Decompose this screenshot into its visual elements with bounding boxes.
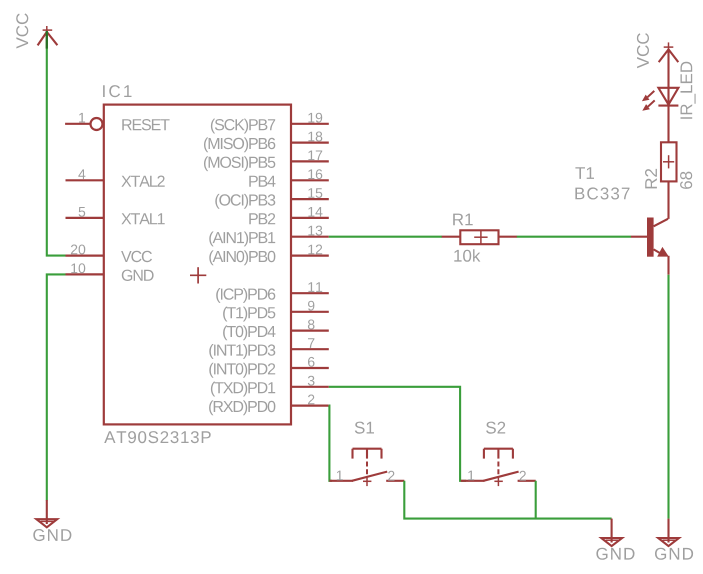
IC1 pin 19 (SCK)PB7	[291, 123, 329, 125]
IC1 pin 9 (T1)PD5	[291, 311, 329, 313]
pin name (INT0)PD2	[209, 363, 275, 378]
LED emission arrows	[642, 91, 655, 111]
net label IR_LED	[681, 62, 696, 119]
resistor R2	[661, 142, 677, 181]
pin 4 XTAL2	[66, 179, 104, 181]
wire pin2 RXD to S1	[329, 406, 332, 481]
ground symbol left	[36, 500, 57, 527]
right pin numbers	[308, 113, 323, 405]
switch S2	[461, 449, 536, 486]
label R2	[645, 169, 657, 189]
left pin numbers	[71, 113, 86, 273]
left pin names	[121, 119, 170, 281]
pin number 12	[308, 245, 322, 255]
net label GND left	[33, 529, 71, 541]
pin number 11	[308, 282, 322, 292]
wire IC pin 10 to GND left	[47, 274, 66, 500]
pin number 20	[71, 245, 85, 255]
net label VCC left	[16, 13, 28, 48]
net label GND right	[655, 548, 693, 560]
ground symbol right	[658, 519, 679, 547]
pin number 10	[71, 263, 85, 273]
wire pin13 to R1	[329, 236, 442, 238]
IC1 pin 11 (ICP)PD6	[291, 292, 329, 294]
IC1 pin 12 (AIN0)PB0	[291, 255, 329, 257]
pin name (AIN1)PB1	[209, 232, 275, 247]
net label VCC right	[637, 33, 649, 68]
IC1 pin 2 (RXD)PD0	[291, 405, 329, 407]
pin name (MISO)PB6	[204, 137, 275, 152]
IC1 pin 16 PB4	[291, 179, 329, 181]
transistor T1 BC337	[631, 181, 669, 274]
pin name PB2	[249, 213, 275, 224]
wire VCC to IC pin 20	[47, 32, 66, 256]
pin name (T1)PD5	[223, 307, 275, 322]
pin number 7	[308, 338, 314, 348]
pin number 8	[308, 320, 315, 330]
pin name (OCI)PB3	[215, 194, 275, 209]
ground symbol bottom middle	[601, 519, 622, 547]
pin name XTAL2	[121, 176, 164, 187]
pin number 1	[79, 113, 85, 123]
pin 10 GND	[66, 273, 104, 275]
label S1	[355, 422, 374, 434]
pin name (AIN0)PB0	[209, 250, 275, 265]
IC1 pin 14 PB2	[291, 217, 329, 219]
label S2	[486, 422, 505, 434]
IC1 pin 3 (TXD)PD1	[291, 386, 329, 388]
wire R1 to T1 base	[517, 236, 631, 238]
IC1 pin 15 (OCI)PB3	[291, 198, 329, 200]
diode D1 IR LED	[658, 88, 678, 143]
pin name (T0)PD4	[223, 325, 275, 340]
pin number 14	[308, 207, 322, 217]
IC1 origin cross	[190, 267, 206, 283]
pin number 3	[308, 376, 315, 386]
S1 pin number 2	[388, 471, 394, 481]
S1 pin number 1	[337, 471, 343, 481]
pin 20 VCC	[66, 255, 104, 257]
pin number 4	[78, 169, 85, 179]
switch S1	[329, 449, 404, 486]
IC1 pin 7 (INT1)PD3	[291, 348, 329, 350]
pin name (RXD)PD0	[209, 400, 275, 415]
wire pin3 TXD to S2	[329, 387, 466, 481]
pin name (INT1)PD3	[209, 344, 275, 359]
S2 pin number 2	[520, 471, 526, 481]
wire T1 emitter to GND right	[667, 275, 669, 519]
right side pins 19..12 and 11..2	[291, 124, 329, 406]
pin name (SCK)PB7	[211, 119, 275, 134]
pin number 16	[308, 169, 322, 179]
right pin names	[204, 119, 276, 416]
pin name RESET	[122, 119, 169, 130]
wire overlap dark segment at VCC stem	[46, 31, 48, 49]
pin name PB4	[249, 176, 275, 187]
label 68	[680, 172, 692, 189]
net label GND bottom middle	[596, 548, 634, 560]
IC1 pin 8 (T0)PD4	[291, 330, 329, 332]
wire S1 pin2 to ground bus	[404, 481, 611, 519]
wire S2 pin2 down to bus	[535, 481, 537, 519]
label 10k	[454, 249, 480, 261]
IC1 pin 6 (INT0)PD2	[291, 367, 329, 369]
pin name XTAL1	[121, 213, 164, 224]
IC1 pin 17 (MOSI)PB5	[291, 160, 329, 162]
pin number 18	[308, 132, 322, 142]
IC1 pin 18 (MISO)PB6	[291, 142, 329, 144]
pin number 15	[308, 188, 322, 198]
pin name VCC	[121, 251, 152, 262]
pin number 17	[308, 151, 322, 161]
label IC1	[103, 85, 131, 97]
pin number 6	[308, 357, 315, 367]
pin 5 XTAL1	[66, 217, 104, 219]
label BC337	[575, 187, 629, 199]
VCC supply symbol right	[659, 42, 679, 87]
pin number 9	[308, 301, 314, 311]
IC1 pin 13 (AIN1)PB1	[291, 236, 329, 238]
S2 pin number 1	[468, 471, 474, 481]
pin name (ICP)PD6	[216, 288, 275, 303]
pin name GND	[122, 270, 154, 281]
pin name (TXD)PD1	[211, 382, 275, 397]
resistor R1	[442, 230, 517, 244]
pin 1 RESET with bubble	[65, 118, 102, 130]
VCC supply symbol left	[38, 26, 58, 49]
label R1	[453, 214, 473, 226]
pin number 19	[308, 113, 322, 123]
pin number 5	[79, 207, 86, 217]
label T1	[575, 167, 594, 179]
IC1 body AT90S2313P	[104, 105, 291, 425]
pin number 2	[308, 395, 314, 405]
pin name (MOSI)PB5	[204, 156, 275, 171]
label AT90S2313P	[104, 431, 211, 443]
pin number 13	[308, 226, 322, 236]
